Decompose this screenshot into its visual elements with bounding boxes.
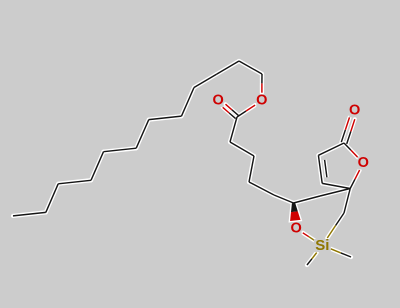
- atom label O: lactone ring O: [358, 157, 369, 170]
- svg-text:O: O: [256, 93, 267, 109]
- bond carbonyl C to ester O: [237, 111, 246, 117]
- bond CH2 to stereocenter: [294, 196, 321, 203]
- atom label Si: Si of trimethylsilyl: [314, 239, 331, 252]
- alkyl chain zigzag bond 2: [149, 116, 182, 120]
- bond lactone C2 to ring O: [344, 143, 351, 150]
- atom label O: lactone carbonyl O: [349, 104, 360, 117]
- inner line of C3=C4 double bond: [325, 160, 327, 177]
- bond linker CH2 to stereocenter: [274, 195, 294, 203]
- alkyl chain zigzag bond 4: [104, 148, 137, 152]
- white bond halo underlay: [13, 61, 360, 265]
- stereo wedge bond stereocenter to O: [291, 203, 298, 212]
- bond ring O to C5: [355, 170, 360, 179]
- bond CH2 to Si: [336, 213, 344, 226]
- atom label O: carbonyl O of ester: [213, 94, 224, 107]
- alkyl chain bond CH2-CH2: [239, 61, 262, 74]
- alkyl chain bond: [217, 61, 240, 74]
- alkyl chain zigzag bond 8: [13, 212, 46, 216]
- linker chain bond: [249, 182, 274, 195]
- linker chain bond: [230, 142, 254, 156]
- bond C5 to CH2 (toward Si): [344, 189, 350, 214]
- atom label O: ester O: [256, 94, 267, 107]
- ring bond C3-C2: [318, 143, 344, 155]
- bond C5 to CH2 (toward stereocenter): [320, 189, 350, 197]
- C=O double bond of ester carbonyl: [223, 107, 230, 113]
- alkyl chain zigzag bond 1: [182, 88, 195, 117]
- svg-text:O: O: [290, 220, 301, 236]
- atom label O: silyl ether O: [291, 222, 302, 235]
- ring bond C5-C4: [322, 183, 350, 188]
- alkyl chain zigzag bond 6: [58, 180, 91, 184]
- Si methyl bond (right): [331, 249, 341, 253]
- bond carbonyl C to alpha CH2: [230, 117, 237, 142]
- svg-text:O: O: [349, 103, 360, 119]
- alkyl chain zigzag bond 7: [46, 184, 58, 213]
- alkyl chain zigzag bond 5: [91, 152, 104, 181]
- bond ester O to alkyl CH2: [261, 83, 263, 92]
- alkyl chain bond: [194, 74, 217, 87]
- bond silyl O to Si: [303, 233, 309, 237]
- ring double bond C4=C3: [318, 155, 322, 183]
- linker chain bond: [249, 156, 254, 182]
- alkyl chain zigzag bond 3: [136, 120, 149, 149]
- svg-text:O: O: [358, 155, 369, 171]
- C=O double bond of lactone carbonyl: [347, 132, 351, 144]
- Si methyl bond (lower left): [312, 253, 317, 259]
- svg-text:Si: Si: [315, 237, 329, 254]
- svg-text:O: O: [212, 93, 223, 109]
